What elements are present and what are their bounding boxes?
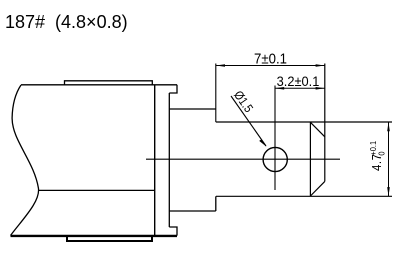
body top edge <box>21 84 177 86</box>
bottom sleeve plate <box>67 236 152 241</box>
dimension 4.7 +0.1/0 <box>369 122 390 196</box>
blade tip edge / extension <box>324 64 326 182</box>
sleeve seam notch top <box>169 85 177 93</box>
top sleeve plate <box>65 81 153 85</box>
dimension 7±0.1 <box>216 50 325 67</box>
body mid edge <box>39 189 155 191</box>
svg-text:0: 0 <box>377 151 387 156</box>
body bottom edge (thick) <box>11 235 178 237</box>
dimension 3.2±0.1 <box>275 73 325 89</box>
blade bottom edge / extension <box>216 195 392 197</box>
hole centerline vertical / extension for 3.2 dim <box>274 86 276 191</box>
hole <box>263 147 287 171</box>
title text 187# (4.8x0.8) <box>5 12 128 32</box>
barrel inner edge <box>168 93 170 227</box>
neck bottom edge <box>169 210 216 212</box>
leader Ø1.5 <box>231 88 267 146</box>
blade top edge / extension <box>216 121 392 123</box>
chamfer bottom diagonal <box>310 181 324 196</box>
sleeve seam notch bottom <box>169 227 177 236</box>
chamfer tangent line <box>309 122 311 196</box>
blade step bottom <box>215 196 217 211</box>
neck top edge <box>169 108 216 110</box>
svg-text:187# (4.8×0.8): 187# (4.8×0.8) <box>5 12 128 32</box>
chamfer top diagonal <box>310 122 324 137</box>
centerline horizontal <box>146 158 340 160</box>
blade step left / extension line <box>215 64 217 123</box>
svg-text:3.2±0.1: 3.2±0.1 <box>277 73 320 88</box>
svg-text:7±0.1: 7±0.1 <box>254 50 287 67</box>
collar face <box>154 85 156 236</box>
break line (wave) <box>11 85 39 236</box>
